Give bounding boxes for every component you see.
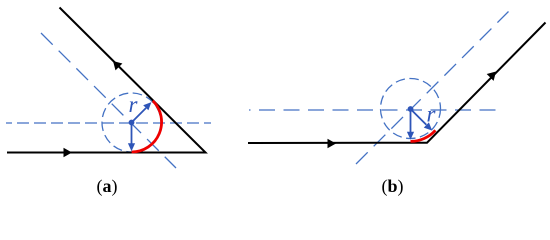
svg-text:r: r: [129, 92, 139, 117]
svg-text:(a): (a): [97, 176, 118, 197]
svg-text:r: r: [427, 102, 437, 127]
svg-text:(b): (b): [382, 176, 404, 197]
